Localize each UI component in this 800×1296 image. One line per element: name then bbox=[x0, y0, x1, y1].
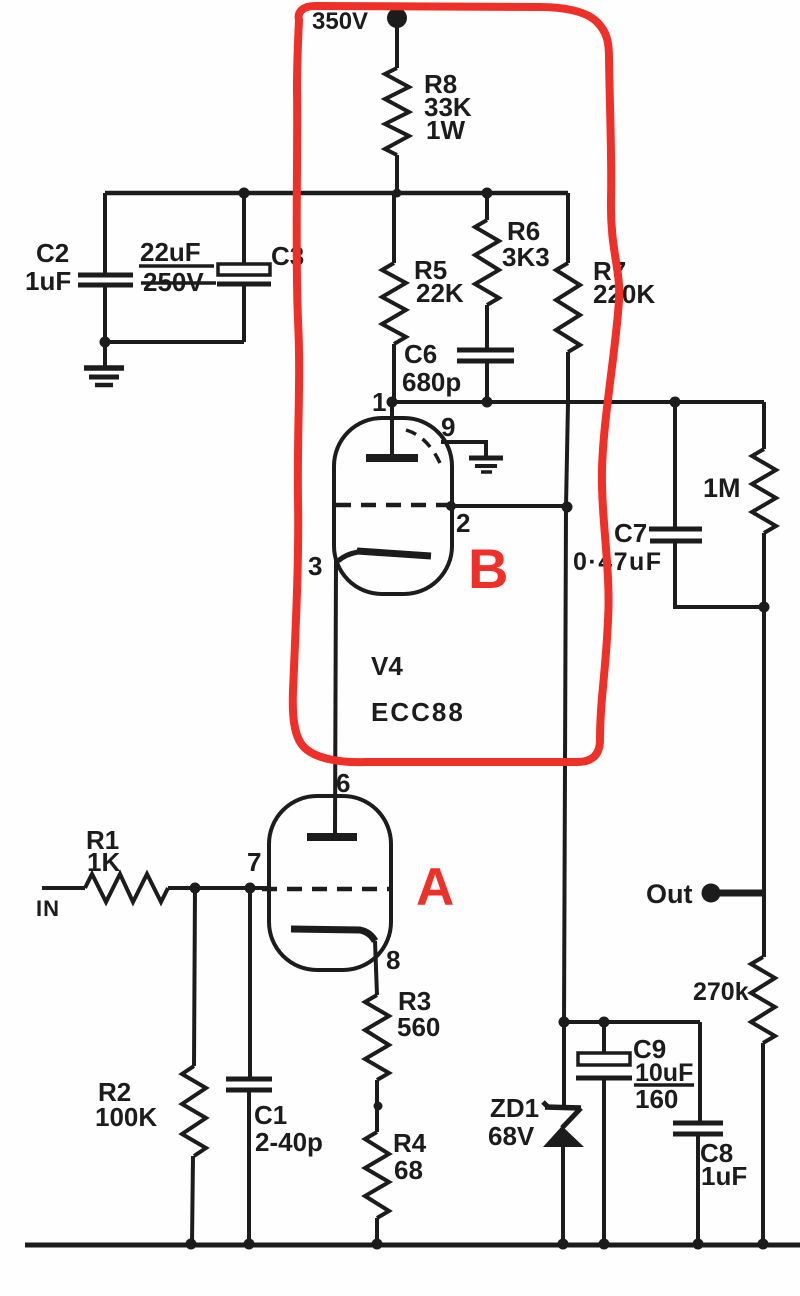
wire R2 bottom lead bbox=[192, 1156, 193, 1244]
wire ZD1 bottom lead bbox=[561, 1145, 565, 1244]
svg-text:C2: C2 bbox=[36, 238, 69, 268]
junction 1M/C7 bottom bbox=[759, 602, 770, 613]
svg-text:C1: C1 bbox=[254, 1100, 287, 1130]
svg-text:C6: C6 bbox=[404, 339, 437, 369]
svg-text:22K: 22K bbox=[416, 278, 464, 308]
svg-text:1uF: 1uF bbox=[701, 1161, 747, 1191]
wire ground bus bbox=[25, 1243, 800, 1248]
heater dashed arc B bbox=[406, 430, 440, 463]
junction pin1 bbox=[387, 397, 398, 408]
wire C1 top lead bbox=[248, 888, 252, 1077]
tube V4 section B envelope bbox=[334, 418, 452, 594]
junction pin2 node bbox=[562, 502, 573, 513]
resistor R6 bbox=[475, 220, 499, 305]
svg-text:3: 3 bbox=[308, 551, 322, 581]
svg-text:68V: 68V bbox=[488, 1121, 535, 1151]
wire C8 bottom lead bbox=[696, 1134, 700, 1244]
wire 1M bottom lead bbox=[762, 533, 766, 607]
node 350V terminal bbox=[387, 8, 407, 28]
wire C7 bottom lead bbox=[675, 541, 764, 607]
red annotation loop around section B bbox=[293, 6, 619, 762]
wire pin2 bbox=[451, 504, 567, 508]
resistor R8 bbox=[385, 68, 409, 155]
capacitor C2 bbox=[78, 273, 133, 278]
cathode B bbox=[357, 551, 431, 556]
wire C1 bottom lead bbox=[247, 1090, 251, 1244]
svg-text:ZD1: ZD1 bbox=[490, 1093, 539, 1123]
wire R5 top lead bbox=[392, 193, 396, 263]
svg-text:68: 68 bbox=[394, 1155, 423, 1185]
svg-text:7: 7 bbox=[247, 847, 261, 877]
wire 270k bottom lead bbox=[761, 1043, 765, 1244]
junction C6 bottom bbox=[482, 397, 493, 408]
svg-text:100K: 100K bbox=[95, 1102, 157, 1132]
svg-text:9: 9 bbox=[441, 412, 455, 442]
junction C3 top bbox=[239, 188, 250, 199]
svg-text:350V: 350V bbox=[312, 8, 368, 35]
zener ZD1 bbox=[543, 1102, 548, 1107]
ground symbol bbox=[103, 342, 107, 366]
wire down to Out bbox=[762, 607, 766, 957]
resistor 270k bbox=[751, 957, 775, 1043]
junction C7 top bbox=[670, 397, 681, 408]
wire R7 bottom lead bbox=[566, 352, 570, 401]
wire C7 top lead bbox=[673, 402, 677, 528]
tube section A envelope bbox=[269, 796, 391, 970]
wire top bus bbox=[105, 191, 568, 196]
resistor R5 bbox=[382, 263, 406, 344]
junction C2 bottom bbox=[100, 337, 111, 348]
svg-text:V4: V4 bbox=[371, 651, 403, 681]
svg-text:8: 8 bbox=[386, 945, 400, 975]
wire zener bus bbox=[564, 1020, 700, 1024]
wire cathode B down to tube A pin6 bbox=[335, 560, 336, 833]
svg-text:C7: C7 bbox=[614, 518, 647, 548]
resistor R2 bbox=[182, 1066, 206, 1156]
wire R7 top lead bbox=[566, 193, 570, 263]
junction bus x=763 bbox=[758, 1239, 769, 1250]
wire R6 to C6 bbox=[485, 305, 489, 349]
junction C1 top bbox=[245, 883, 256, 894]
wire ZD1 top lead bbox=[562, 1022, 566, 1108]
wire C2 bottom lead bbox=[103, 285, 107, 342]
wire anode bus bbox=[392, 400, 764, 404]
wire 350V to R8 bbox=[395, 18, 399, 68]
capacitor C7 bbox=[649, 527, 702, 532]
wire C2-C3 bottom link bbox=[105, 340, 244, 344]
grid dashed A bbox=[262, 887, 389, 892]
junction bus x=191 bbox=[186, 1239, 197, 1250]
svg-text:Out: Out bbox=[646, 879, 693, 909]
wire R3 to R4 bbox=[375, 1080, 379, 1132]
ground symbol pin9 bbox=[469, 456, 503, 461]
cathode A bbox=[291, 929, 375, 941]
wire C9 top lead bbox=[602, 1022, 606, 1053]
junction R3/R4 bbox=[374, 1102, 383, 1111]
wire R5 bottom lead bbox=[392, 344, 396, 402]
svg-text:22uF: 22uF bbox=[140, 237, 201, 267]
svg-text:680p: 680p bbox=[402, 367, 461, 397]
wire C3 bottom lead bbox=[242, 284, 246, 342]
grid dashed B bbox=[336, 503, 452, 508]
wire R2 top lead bbox=[194, 888, 195, 1066]
junction grid B envelope bbox=[446, 501, 456, 511]
wire R6 top lead bbox=[485, 193, 489, 220]
junction bus x=563 bbox=[558, 1239, 569, 1250]
svg-text:1K: 1K bbox=[87, 847, 120, 877]
junction bus x=377 bbox=[372, 1239, 383, 1250]
svg-text:3K3: 3K3 bbox=[502, 242, 550, 272]
wire cathode A to R3 bbox=[375, 941, 377, 995]
svg-text:1W: 1W bbox=[426, 115, 465, 145]
svg-text:2: 2 bbox=[456, 508, 470, 538]
resistor R1 bbox=[85, 874, 168, 902]
resistor R3 bbox=[365, 995, 389, 1080]
junction R6 top bbox=[482, 188, 493, 199]
node Out bbox=[702, 884, 721, 903]
resistor R7 bbox=[556, 263, 580, 352]
anode plate A bbox=[307, 833, 357, 841]
svg-text:R4: R4 bbox=[393, 1128, 427, 1158]
svg-text:1M: 1M bbox=[703, 473, 741, 503]
junction bus x=698 bbox=[693, 1239, 704, 1250]
svg-text:IN: IN bbox=[36, 896, 60, 921]
svg-text:0·47uF: 0·47uF bbox=[573, 548, 663, 576]
svg-text:160: 160 bbox=[635, 1084, 678, 1114]
svg-text:1: 1 bbox=[372, 387, 386, 417]
svg-text:10uF: 10uF bbox=[635, 1059, 693, 1087]
svg-text:270k: 270k bbox=[693, 978, 749, 1006]
capacitor C6 bbox=[457, 348, 514, 353]
junction zd1 top bbox=[559, 1017, 570, 1028]
wire R8 to top bus bbox=[395, 155, 399, 193]
svg-text:A: A bbox=[416, 858, 454, 917]
wire C9 bottom lead bbox=[602, 1078, 606, 1244]
wire R1 to tube A bbox=[168, 886, 270, 890]
junction bus x=249 bbox=[244, 1239, 255, 1250]
resistor 1M bbox=[752, 449, 776, 533]
junction R8/R5/bus bbox=[393, 189, 402, 198]
capacitor C3 electrolytic bbox=[218, 264, 270, 275]
wire C6 bottom lead bbox=[485, 361, 489, 402]
svg-text:6: 6 bbox=[336, 768, 350, 798]
svg-text:ECC88: ECC88 bbox=[371, 697, 465, 727]
capacitor C9 electrolytic bbox=[578, 1053, 630, 1065]
wire R4 bottom lead bbox=[375, 1218, 379, 1244]
wire C2 top lead bbox=[103, 193, 107, 274]
wire 1M top lead bbox=[762, 402, 766, 449]
junction R2 top bbox=[190, 883, 201, 894]
svg-text:560: 560 bbox=[397, 1012, 440, 1042]
anode plate B bbox=[366, 454, 418, 462]
wire C3 top lead bbox=[242, 193, 246, 264]
wire C8 top lead bbox=[698, 1022, 702, 1121]
wire IN lead bbox=[42, 886, 85, 890]
capacitor C1 bbox=[226, 1077, 272, 1082]
capacitor C8 bbox=[673, 1121, 723, 1126]
svg-text:1uF: 1uF bbox=[25, 266, 71, 296]
svg-text:B: B bbox=[468, 537, 508, 600]
junction C9 top bbox=[599, 1017, 610, 1028]
wire R7 node down to pin2 node bbox=[566, 402, 568, 507]
wire pin1 to anode B bbox=[390, 402, 394, 456]
wire pin9 to ground bbox=[441, 442, 486, 456]
svg-text:220K: 220K bbox=[593, 279, 655, 309]
resistor R4 bbox=[365, 1132, 389, 1218]
junction bus x=604 bbox=[599, 1239, 610, 1250]
wire pin2 node down bbox=[564, 507, 566, 1022]
svg-text:2-40p: 2-40p bbox=[255, 1127, 323, 1157]
